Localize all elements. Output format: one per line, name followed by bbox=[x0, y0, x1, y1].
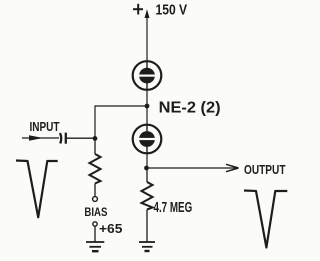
ground (output load) bbox=[139, 242, 155, 251]
waveform: output negative pulse bbox=[244, 191, 287, 248]
terminal (bias, open circle) bbox=[93, 197, 98, 202]
wire: junction C to resistor R2 bbox=[146, 168, 148, 182]
svg-text:OUTPUT: OUTPUT bbox=[244, 162, 286, 177]
neon lamp V1 (NE-2) bbox=[133, 61, 162, 90]
wire: junction A horizontal to left branch bbox=[95, 105, 147, 107]
waveform: input negative pulse bbox=[16, 161, 58, 218]
svg-text:NE-2 (2): NE-2 (2) bbox=[159, 100, 221, 117]
resistor R2 (4.7 MEG) bbox=[142, 182, 153, 210]
wire: left branch vertical down to node B bbox=[94, 105, 96, 138]
wire: +65 terminal to ground bbox=[94, 226, 96, 242]
power terminal arrow +150V bbox=[145, 9, 150, 18]
svg-text:+65: +65 bbox=[99, 222, 122, 236]
wire: supply to lamp V1 bbox=[146, 14, 148, 61]
svg-text:INPUT: INPUT bbox=[30, 119, 60, 134]
ground (bias supply) bbox=[86, 242, 104, 251]
terminal (+65 supply, open circle) bbox=[93, 222, 97, 226]
wire: lamp V1 to junction A bbox=[146, 90, 148, 106]
neon lamp V2 (NE-2) bbox=[133, 125, 162, 154]
wire: capacitor to node B bbox=[67, 137, 95, 139]
wire: junction A to lamp V2 bbox=[146, 106, 148, 125]
node junction C (output node) bbox=[144, 166, 149, 171]
resistor R1 (bias) bbox=[90, 154, 101, 184]
wire: input lead with signal arrow bbox=[22, 135, 59, 141]
svg-text:4.7 MEG: 4.7 MEG bbox=[154, 200, 193, 216]
svg-text:BIAS: BIAS bbox=[84, 205, 107, 219]
svg-text:150 V: 150 V bbox=[156, 3, 188, 19]
wire: lamp V2 to junction C bbox=[146, 153, 148, 169]
label + (supply polarity) bbox=[133, 4, 143, 15]
capacitor C1 bbox=[60, 133, 66, 144]
wire: resistor R2 to ground bbox=[146, 210, 148, 243]
node junction A bbox=[145, 104, 150, 109]
wire: resistor R1 to bias terminal bbox=[94, 184, 96, 197]
wire: node B to resistor R1 bbox=[94, 138, 96, 154]
wire: output lead with arrowhead bbox=[147, 164, 239, 171]
node junction B bbox=[93, 136, 98, 141]
